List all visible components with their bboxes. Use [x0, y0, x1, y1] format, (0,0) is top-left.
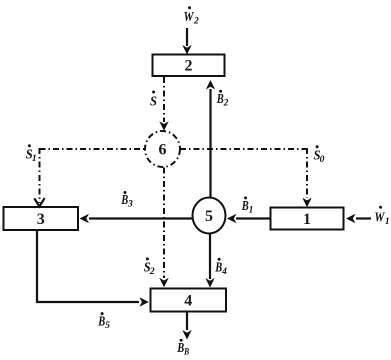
svg-text:4: 4 — [221, 267, 227, 277]
svg-text:S: S — [150, 94, 157, 109]
wire S2 — [163, 168, 165, 279]
arrowhead W1 into box1 — [346, 214, 356, 223]
wire S horizontal left — [40, 148, 146, 150]
arrowhead B1 into circle5 — [227, 214, 237, 223]
arrowhead S1 into box3 (open chevron) — [34, 198, 44, 206]
wire BB — [186, 312, 188, 331]
arrowhead B4 into box4 — [205, 278, 214, 288]
svg-text:B: B — [183, 348, 189, 358]
wire box3 to B5 elbow — [37, 230, 139, 302]
svg-text:3: 3 — [37, 211, 45, 228]
wire W2 — [186, 28, 188, 46]
svg-text:6: 6 — [159, 141, 167, 158]
box 2 — [153, 55, 225, 77]
wire S horizontal right — [180, 148, 307, 150]
svg-text:2: 2 — [193, 17, 199, 27]
wire W1 — [356, 217, 371, 219]
arrowhead B2 up into box2 — [206, 80, 215, 90]
svg-text:5: 5 — [105, 321, 110, 331]
wire B1 — [236, 217, 270, 219]
arrowhead W2 into box2 — [182, 45, 191, 55]
arrowhead S0 into box1 — [302, 198, 311, 208]
svg-text:0: 0 — [320, 155, 325, 165]
wire S from box2 — [163, 77, 165, 122]
circle 5 — [193, 198, 226, 234]
arrowhead S2 into box4 — [159, 278, 168, 288]
arrowhead S into circle6 — [159, 121, 168, 131]
arrowhead BB down — [182, 330, 191, 340]
wire B2 — [209, 89, 211, 197]
svg-text:1: 1 — [303, 211, 311, 228]
box 1 — [271, 208, 344, 230]
svg-text:4: 4 — [184, 293, 192, 310]
box 4 — [151, 289, 227, 312]
wire S1 — [39, 148, 41, 203]
circle 6 — [145, 131, 180, 167]
wire B3 — [89, 217, 193, 219]
box 3 — [4, 207, 79, 230]
wire S0 — [306, 148, 308, 198]
svg-text:2: 2 — [185, 58, 193, 75]
svg-text:2: 2 — [223, 99, 229, 109]
arrowhead B5 into box4 — [139, 297, 149, 306]
wire B4 — [209, 233, 211, 279]
svg-text:1: 1 — [385, 217, 390, 227]
svg-text:3: 3 — [127, 199, 133, 209]
svg-text:2: 2 — [149, 267, 155, 277]
svg-text:1: 1 — [249, 205, 254, 215]
arrowhead B3 into box3 — [80, 214, 90, 223]
svg-text:1: 1 — [32, 154, 37, 164]
svg-text:5: 5 — [205, 208, 213, 225]
